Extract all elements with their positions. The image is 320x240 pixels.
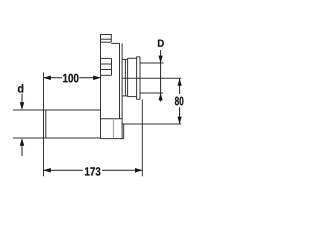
arrowhead 80 top (points up): [178, 78, 182, 85]
label d: [18, 84, 23, 93]
arrowhead 173 left: [44, 168, 51, 173]
ring 1 inner vertical: [124, 59, 126, 96]
shaft centerline / 80 extension top: [122, 77, 181, 79]
d dimension bottom extension line + input shaft bottom edge: [13, 137, 101, 139]
cooling fin line 3: [101, 69, 112, 71]
dimension line 173 left segment: [44, 169, 84, 171]
body top edge: [101, 41, 112, 43]
dimension line D vertical: [160, 50, 162, 102]
dimension line 173 right segment: [102, 169, 142, 171]
flange bell left face: [121, 43, 123, 138]
ring 2 top edge: [128, 57, 137, 59]
d dimension top extension line + input shaft top edge: [13, 109, 101, 111]
ring 3 top edge: [137, 56, 140, 58]
arrowhead 100 right: [93, 76, 100, 81]
ring 3 bottom edge: [137, 98, 140, 100]
dimension line 100 right segment: [79, 77, 100, 79]
flange bell lower lip: [123, 124, 125, 139]
label D: [158, 40, 164, 47]
input shaft end face + extension line for 100 and 173: [43, 72, 45, 176]
dimension line 100 left segment: [44, 77, 63, 79]
arrowhead d bottom (points up): [20, 138, 24, 146]
label 100: [63, 74, 78, 83]
body internal faint vertical: [112, 119, 114, 139]
body internal horizontal line: [101, 118, 123, 120]
arrowhead 100 left: [44, 76, 51, 81]
label 80: [175, 97, 184, 106]
ring 1 top edge: [122, 58, 128, 60]
ring 1 bottom edge: [122, 95, 128, 97]
flange bell bottom / 80 extension line: [122, 123, 181, 125]
terminal box on body top: [101, 35, 112, 43]
ring 2 bottom edge: [128, 96, 137, 98]
label 173: [85, 167, 100, 175]
dimension line 80 lower segment: [179, 107, 181, 124]
arrowhead D top (points down): [159, 56, 163, 63]
output shaft bottom edge: [140, 92, 163, 94]
dimension line d upper segment: [21, 94, 23, 105]
terminal box lid line: [101, 38, 112, 40]
arrowhead 80 bottom (points down): [178, 117, 182, 124]
dimension line 80 upper segment: [179, 78, 181, 94]
body left face: [100, 42, 102, 138]
ring 3 left vertical: [136, 57, 138, 100]
arrowhead D bottom (points up): [159, 93, 163, 100]
ring 2 right vertical: [127, 58, 129, 96]
arrowhead 173 right: [135, 168, 142, 173]
arrowhead d top (points down): [20, 102, 24, 110]
body right face upper: [119, 43, 121, 118]
dimension line d lower segment: [21, 144, 23, 156]
output shaft top edge: [140, 62, 164, 64]
cooling fin line 1: [101, 57, 112, 59]
cooling fin line 4: [101, 74, 112, 76]
input shaft chamfer line: [45, 111, 47, 138]
ring 3 right face: [139, 57, 141, 100]
cooling fin line 2: [101, 63, 112, 65]
body top step edge: [111, 42, 120, 44]
cooling fins right edge: [111, 58, 113, 75]
flange bell right face / 173 extension line: [141, 100, 143, 177]
body bottom edge: [101, 138, 124, 140]
